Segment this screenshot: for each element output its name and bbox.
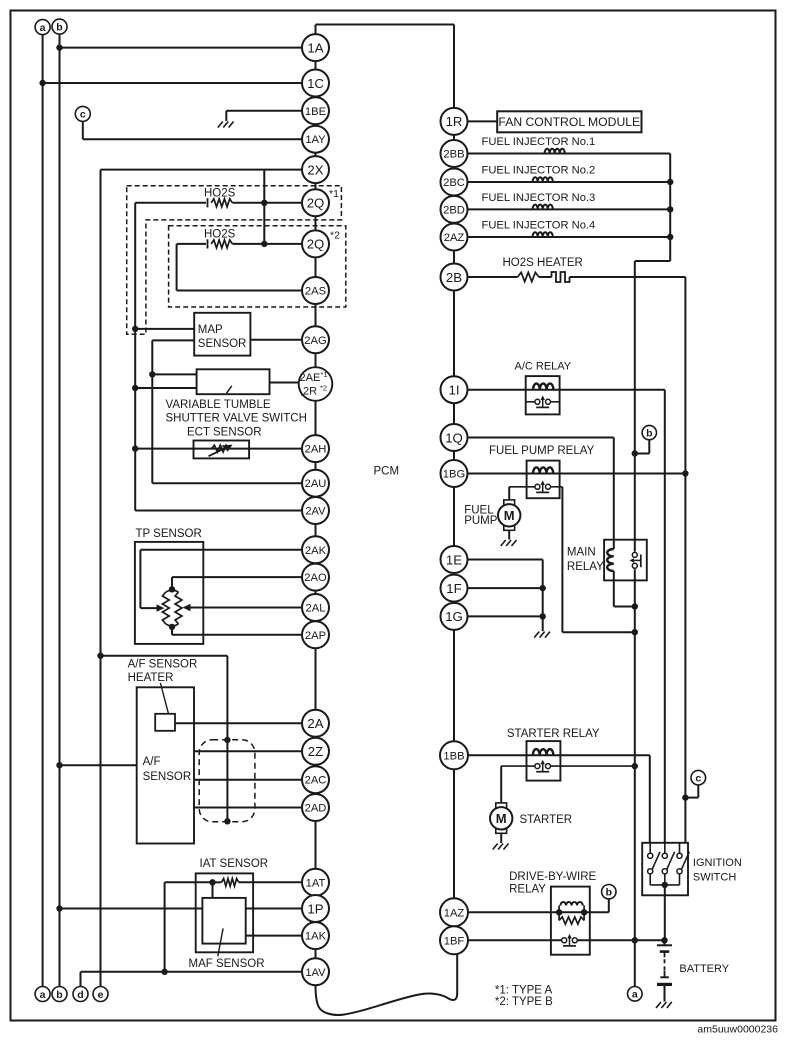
- starter relay box: [527, 741, 561, 781]
- wire A/F heater bus: [101, 655, 228, 657]
- junction TP top node: [169, 586, 175, 592]
- junction injector No.4: [667, 234, 673, 240]
- main relay box: [604, 540, 647, 581]
- PCM pin 2AH: [302, 435, 329, 462]
- junction bus b / MAF: [56, 905, 62, 911]
- svg-text:2AP: 2AP: [305, 630, 326, 642]
- PCM bottom wavy boundary: [316, 954, 458, 1015]
- PCM pin 1F: [441, 575, 468, 602]
- svg-text:c: c: [80, 109, 86, 121]
- wire 2AZ to injector No.4: [454, 236, 670, 238]
- ground at starter: [493, 844, 498, 850]
- svg-text:FUEL INJECTOR No.3: FUEL INJECTOR No.3: [482, 192, 596, 204]
- A/C relay contact: [526, 401, 538, 403]
- svg-text:1AY: 1AY: [305, 134, 326, 146]
- wire 2BC to injector No.2: [454, 181, 670, 183]
- svg-text:MAP: MAP: [198, 324, 223, 336]
- TP potentiometer element: [162, 592, 169, 624]
- HO2S heater supply wire down: [684, 277, 686, 843]
- PCM pin 1BG: [441, 460, 468, 487]
- ignition switch box: [642, 843, 688, 896]
- svg-text:1AK: 1AK: [305, 931, 327, 943]
- PCM pin 2Q: [302, 189, 329, 216]
- svg-text:*1: *1: [320, 370, 327, 379]
- junction heater wire / c: [682, 794, 688, 800]
- svg-text:TP SENSOR: TP SENSOR: [136, 528, 202, 540]
- dashed boundary HO2S sensor *1: [127, 186, 342, 335]
- A/C relay box: [526, 376, 560, 414]
- svg-text:2A: 2A: [307, 716, 323, 731]
- wire MAP to sensor-supply bus: [152, 339, 194, 341]
- svg-text:VARIABLE TUMBLE: VARIABLE TUMBLE: [166, 399, 271, 411]
- PCM pin 1G: [441, 603, 468, 630]
- wire A/F to 2AC: [194, 779, 316, 781]
- wire 2BB to injector No.1: [454, 153, 670, 155]
- PCM pin 2AL: [302, 594, 329, 621]
- junction DBW node right: [581, 909, 587, 915]
- PCM top boundary wire: [316, 24, 455, 26]
- wire ECT to 2AH: [135, 448, 315, 450]
- svg-text:HEATER: HEATER: [128, 672, 174, 684]
- wire DBW to b: [584, 911, 609, 913]
- PCM pin 1AK: [302, 922, 329, 949]
- PCM pin 1Q: [441, 424, 468, 451]
- svg-text:IGNITION: IGNITION: [693, 857, 742, 869]
- junction ground bus / ECT: [132, 445, 138, 451]
- svg-text:RELAY: RELAY: [567, 561, 604, 573]
- PCM pin 1R: [441, 108, 468, 135]
- svg-text:2AH: 2AH: [305, 444, 327, 456]
- PCM pin 2B: [441, 264, 468, 291]
- wire 1AT to IAT resistor: [239, 881, 316, 883]
- svg-text:a: a: [40, 989, 46, 1001]
- wire bus b to A/F sensor: [60, 764, 137, 766]
- DBW relay coil branch: [558, 906, 560, 913]
- ground at 1E/1F/1G: [534, 632, 539, 638]
- ECT thermistor symbol: [212, 445, 230, 452]
- svg-text:FUEL INJECTOR No.1: FUEL INJECTOR No.1: [482, 136, 596, 148]
- drive-by-wire relay box: [551, 887, 590, 955]
- wire fuel pump to ground: [508, 530, 510, 539]
- junction TP bottom node: [169, 624, 175, 630]
- fan control module box: [497, 111, 641, 132]
- svg-text:1AZ: 1AZ: [444, 907, 465, 919]
- wire A/F heater to 2A: [175, 722, 316, 724]
- svg-text:2AU: 2AU: [305, 478, 327, 490]
- junction bus a / 1C: [39, 80, 45, 86]
- junction main line / starter contact: [632, 763, 638, 769]
- svg-text:PCM: PCM: [374, 466, 400, 478]
- svg-text:2AE: 2AE: [300, 372, 321, 384]
- wire 1I through A/C relay: [454, 389, 665, 391]
- junction ground bus / VTSS: [132, 385, 138, 391]
- PCM pin 1C: [302, 70, 329, 97]
- wire 1AZ through DBW relay: [454, 911, 584, 913]
- sensor ground bus (x=135): [134, 203, 136, 511]
- wire 1BG through fuel pump relay: [454, 473, 685, 475]
- wire 1Q to main relay: [454, 437, 614, 439]
- svg-text:2B: 2B: [446, 270, 462, 285]
- svg-text:b: b: [606, 887, 612, 899]
- junction injector No.3: [667, 206, 673, 212]
- main relay coil exit wire: [613, 571, 615, 607]
- PCM pin 2BD: [441, 196, 468, 223]
- svg-text:HO2S HEATER: HO2S HEATER: [503, 257, 583, 269]
- wire A/F to 2Z: [194, 750, 316, 752]
- starter motor M: [496, 803, 507, 809]
- svg-text:2AC: 2AC: [305, 775, 327, 787]
- svg-text:1BE: 1BE: [305, 106, 326, 118]
- DBW relay contact: [566, 938, 572, 942]
- svg-text:SENSOR: SENSOR: [143, 771, 192, 783]
- IAT/MAF outer box: [196, 873, 253, 952]
- wire 2AP to TP bottom: [172, 634, 316, 636]
- wire c to heater supply: [697, 785, 699, 798]
- svg-text:SWITCH: SWITCH: [693, 872, 736, 884]
- junction supply bus / VTSS: [149, 371, 155, 377]
- wire 2AK to TP wiper-left: [140, 549, 315, 551]
- wire IAT node: [213, 881, 222, 883]
- injector No.3 coil: [533, 205, 553, 210]
- svg-text:2AS: 2AS: [305, 286, 326, 298]
- wire ignition to battery: [664, 885, 666, 940]
- svg-text:a: a: [632, 989, 638, 1001]
- node c (at ignition switch): [691, 770, 706, 785]
- PCM pin 1E: [441, 546, 468, 573]
- wire 2AL to TP wiper-right: [189, 607, 316, 609]
- svg-text:2AO: 2AO: [304, 572, 327, 584]
- PCM pin 2AO: [302, 564, 329, 591]
- injector No.2 coil: [533, 177, 553, 182]
- PCM pin 2AE/2R: [299, 367, 333, 401]
- wire VTSS to supply bus: [152, 373, 196, 375]
- junction IAT node: [209, 879, 215, 885]
- wire c to 1AY: [82, 121, 84, 139]
- wire bus a (left vertical): [42, 35, 44, 987]
- PCM pin 2AP: [302, 621, 329, 648]
- svg-text:PUMP: PUMP: [464, 515, 498, 527]
- node b (bottom-left): [52, 987, 67, 1002]
- junction 1BF / main line: [632, 937, 638, 943]
- main relay coil: [607, 549, 614, 571]
- wire 1R to fan control module: [454, 120, 497, 122]
- junction main line / fuel pump relay return: [632, 629, 638, 635]
- wire 2AO to TP top: [172, 576, 316, 578]
- svg-text:IAT SENSOR: IAT SENSOR: [200, 858, 269, 870]
- svg-text:1AT: 1AT: [306, 877, 326, 889]
- svg-text:2AD: 2AD: [305, 803, 327, 815]
- PCM pin 2AU: [302, 470, 329, 497]
- junction ground-bus / MAP: [132, 326, 138, 332]
- wire 1F: [454, 587, 543, 589]
- wire VTSS to ground bus: [135, 387, 196, 389]
- svg-text:*2: TYPE B: *2: TYPE B: [495, 996, 553, 1008]
- svg-text:FUEL INJECTOR No.2: FUEL INJECTOR No.2: [482, 164, 596, 176]
- starter relay contact: [540, 764, 546, 768]
- wire HO2S*1 to sensor-ground bus: [135, 202, 206, 204]
- svg-text:1BB: 1BB: [443, 750, 464, 762]
- PCM pin 1I: [441, 376, 468, 403]
- PCM pin 2AC: [302, 766, 329, 793]
- IAT resistor: [222, 879, 239, 887]
- svg-text:FUEL PUMP RELAY: FUEL PUMP RELAY: [489, 445, 595, 457]
- svg-text:FAN CONTROL MODULE: FAN CONTROL MODULE: [498, 115, 640, 129]
- node c (top-left): [75, 106, 90, 121]
- wire 2B HO2S heater: [454, 276, 518, 278]
- VTSS switch tick: [227, 386, 232, 393]
- junction injector No.2: [667, 179, 673, 185]
- svg-text:STARTER: STARTER: [520, 814, 573, 826]
- wire 2BD to injector No.3: [454, 208, 670, 210]
- junction shield top: [224, 737, 230, 743]
- wire d stub: [80, 972, 82, 987]
- PCM pin 1BF: [440, 926, 468, 954]
- PCM pin 2X: [302, 156, 329, 183]
- node b (top-left): [52, 19, 67, 34]
- fuel pump relay contact: [540, 485, 546, 489]
- A/F heater element square: [155, 714, 175, 731]
- svg-text:1F: 1F: [446, 581, 461, 596]
- wire 1BF through DBW contact: [454, 939, 665, 941]
- svg-text:2AV: 2AV: [305, 506, 326, 518]
- svg-text:2Z: 2Z: [308, 744, 323, 759]
- HO2S heater element: [552, 272, 570, 282]
- A/F heater pointer line: [160, 683, 168, 714]
- HO2S heater resistor: [518, 272, 539, 281]
- wire VTSS to 2AE/2R: [270, 382, 316, 384]
- svg-text:MAF SENSOR: MAF SENSOR: [189, 958, 265, 970]
- wire 1A to bus b: [60, 47, 316, 49]
- wire MAP to 2AG: [250, 339, 315, 341]
- svg-text:1BG: 1BG: [443, 469, 465, 481]
- wire b to main line: [648, 440, 650, 454]
- PCM pin 1AV: [302, 958, 329, 985]
- junction 1G: [540, 613, 546, 619]
- TP sensor box: [135, 542, 203, 644]
- svg-text:d: d: [77, 989, 83, 1001]
- wire MAF to 1AK: [246, 935, 316, 937]
- wire fuel pump relay contact out: [551, 486, 563, 488]
- wire starter relay contact to main line: [551, 765, 635, 767]
- wire MAF to 1P: [246, 908, 316, 910]
- svg-text:FUEL INJECTOR No.4: FUEL INJECTOR No.4: [482, 219, 596, 231]
- A/F sensor box: [137, 687, 194, 843]
- svg-text:2BB: 2BB: [443, 149, 464, 161]
- svg-text:1G: 1G: [445, 609, 463, 624]
- svg-text:1R: 1R: [446, 114, 463, 129]
- PCM pin 2AV: [302, 497, 329, 524]
- MAP sensor box: [194, 313, 250, 356]
- ignition switch common bar: [650, 884, 679, 886]
- svg-text:2BD: 2BD: [443, 204, 465, 216]
- svg-text:*2: *2: [330, 230, 340, 242]
- wire fuel pump relay to pump: [509, 486, 535, 488]
- wire IAT to 1AV line: [165, 881, 213, 883]
- junction tie / 2Q*2 wire: [261, 241, 267, 247]
- svg-text:*2: *2: [320, 384, 327, 393]
- PCM pin 1AZ: [440, 898, 468, 926]
- PCM pin 1A: [302, 34, 329, 61]
- TP arrow right: [183, 604, 191, 611]
- svg-text:A/C RELAY: A/C RELAY: [515, 360, 572, 372]
- wire HO2S*2 loop to 2AS: [177, 243, 206, 245]
- node a (bottom-right): [628, 987, 643, 1002]
- main relay contact: [633, 552, 637, 570]
- node e (bottom-left): [93, 987, 108, 1002]
- svg-text:b: b: [56, 21, 62, 33]
- wire 1AV line: [81, 971, 316, 973]
- battery symbol: [664, 940, 666, 945]
- PCM pin 2AZ: [441, 224, 468, 251]
- PCM right boundary (connector column line): [453, 25, 455, 955]
- svg-text:DRIVE-BY-WIRE: DRIVE-BY-WIRE: [509, 871, 596, 883]
- svg-text:am5uuw0000236: am5uuw0000236: [697, 1024, 778, 1036]
- svg-text:2X: 2X: [307, 162, 323, 177]
- PCM pin 2Z: [302, 738, 329, 765]
- PCM pin 1P: [302, 895, 329, 922]
- node b (at DBW relay): [602, 885, 616, 899]
- fuel pump motor M: [504, 500, 515, 506]
- svg-text:2AG: 2AG: [304, 335, 326, 347]
- ground at fuel pump: [501, 540, 506, 546]
- svg-text:1A: 1A: [307, 40, 323, 55]
- junction heater wire / 1BG: [682, 470, 688, 476]
- node a (bottom-left): [35, 987, 50, 1002]
- svg-text:1Q: 1Q: [445, 430, 463, 445]
- DBW relay resistor branch: [558, 912, 560, 920]
- wire 1BE to ground: [226, 110, 315, 112]
- ignition switch contacts: [649, 843, 651, 853]
- wire bus b (left vertical): [59, 34, 61, 986]
- junction DBW node left: [556, 909, 562, 915]
- HO2S *1 sensor symbol: [207, 198, 209, 207]
- wire 1BB through starter relay: [454, 754, 650, 756]
- wire 1G: [454, 615, 543, 617]
- junction main line / coil return: [632, 603, 638, 609]
- junction bus b / A-F sensor: [56, 762, 62, 768]
- svg-text:c: c: [695, 773, 701, 785]
- wire ground bus to 2AV: [135, 510, 315, 512]
- junction shield bottom: [224, 818, 230, 824]
- svg-text:e: e: [98, 989, 104, 1001]
- wire 1E to ground: [454, 559, 543, 561]
- svg-text:2AL: 2AL: [306, 603, 326, 615]
- svg-text:2AZ: 2AZ: [444, 232, 465, 244]
- wire starter to ground: [500, 833, 502, 843]
- svg-text:SENSOR: SENSOR: [198, 338, 247, 350]
- wire supply bus to 2AU: [152, 482, 315, 484]
- svg-text:,2R: ,2R: [300, 386, 317, 398]
- svg-text:2BC: 2BC: [443, 177, 465, 189]
- svg-text:1BF: 1BF: [444, 935, 465, 947]
- PCM pin 1BE: [302, 97, 329, 124]
- shielded-cable dashed boundary: [199, 740, 255, 822]
- svg-text:1P: 1P: [307, 901, 323, 916]
- A/C relay coil: [533, 384, 553, 390]
- PCM pin 2AG: [302, 326, 329, 353]
- junction 1AV / IAT drop: [161, 969, 167, 975]
- wire 1C to bus a: [43, 82, 316, 84]
- PCM pin 2AK: [302, 536, 329, 563]
- wire MAP to sensor-ground bus: [135, 328, 194, 330]
- PCM pin 2AS: [302, 277, 329, 304]
- svg-text:2Q: 2Q: [307, 237, 325, 252]
- PCM pin 2Q: [302, 230, 329, 257]
- wire 2X to bus e: [101, 169, 316, 171]
- wire 2Q*2 to HO2S sensor: [232, 243, 315, 245]
- svg-text:BATTERY: BATTERY: [679, 963, 729, 975]
- svg-text:A/F: A/F: [143, 756, 161, 768]
- svg-text:SHUTTER VALVE SWITCH: SHUTTER VALVE SWITCH: [166, 413, 307, 425]
- injector No.1 coil: [545, 149, 565, 154]
- svg-text:MAIN: MAIN: [567, 546, 596, 558]
- wire 2Q*1 to HO2S sensor: [232, 202, 315, 204]
- injector No.4 coil: [533, 232, 553, 237]
- A/C relay wire down to ignition switch: [664, 390, 666, 843]
- fuel pump relay coil: [533, 467, 553, 473]
- sensor supply bus (x=152): [151, 340, 153, 483]
- PCM pin 1AY: [302, 126, 329, 153]
- TP arrow left: [157, 604, 165, 611]
- HO2S *2 sensor symbol: [207, 239, 209, 248]
- junction main line / b: [632, 450, 638, 456]
- PCM pin 2AD: [302, 794, 329, 821]
- svg-text:a: a: [40, 22, 46, 34]
- junction bus e / A-F heater: [97, 653, 103, 659]
- wire 2Q tie line: [263, 170, 265, 244]
- ground at 1BE: [218, 122, 223, 128]
- PCM pin 2BB: [441, 140, 468, 167]
- svg-text:1C: 1C: [307, 76, 324, 91]
- svg-text:1E: 1E: [446, 552, 462, 567]
- node d (bottom-left): [73, 987, 88, 1002]
- injector common wire down: [669, 154, 671, 262]
- svg-text:b: b: [56, 989, 62, 1001]
- PCM pin 2A: [302, 710, 329, 737]
- PCM pin 2BC: [441, 169, 468, 196]
- svg-text:b: b: [646, 427, 652, 439]
- node b (at main relay feed): [642, 425, 656, 439]
- svg-text:HO2S: HO2S: [204, 188, 236, 200]
- svg-text:*1: *1: [329, 188, 339, 200]
- svg-text:*1: TYPE A: *1: TYPE A: [495, 984, 553, 996]
- wire A/F to 2AD: [194, 807, 316, 809]
- junction 1BF / battery: [661, 937, 667, 943]
- junction bus b / 1A: [56, 44, 62, 50]
- junction tie / 2Q*1 wire: [261, 200, 267, 206]
- svg-text:HO2S: HO2S: [204, 229, 236, 241]
- svg-text:1AV: 1AV: [305, 967, 326, 979]
- junction ignition common: [662, 882, 668, 888]
- PCM pin 1BB: [440, 741, 468, 769]
- junction 1F: [540, 585, 546, 591]
- MAF pointer line: [218, 928, 223, 956]
- node a (top-left): [35, 20, 50, 35]
- ground at battery: [656, 1002, 661, 1008]
- PCM left boundary (connector column line): [315, 25, 317, 986]
- starter relay coil: [533, 749, 554, 755]
- dashed boundary HO2S sensor *2: [169, 226, 346, 307]
- svg-text:2Q: 2Q: [307, 196, 325, 211]
- svg-text:M: M: [504, 508, 515, 523]
- svg-text:RELAY: RELAY: [509, 883, 546, 895]
- ECT sensor box: [194, 441, 250, 459]
- fuel pump relay box: [527, 461, 560, 499]
- svg-text:STARTER RELAY: STARTER RELAY: [507, 728, 600, 740]
- svg-text:A/F SENSOR: A/F SENSOR: [128, 659, 198, 671]
- wire starter relay to starter: [501, 765, 535, 767]
- PCM pin 1AT: [302, 869, 329, 896]
